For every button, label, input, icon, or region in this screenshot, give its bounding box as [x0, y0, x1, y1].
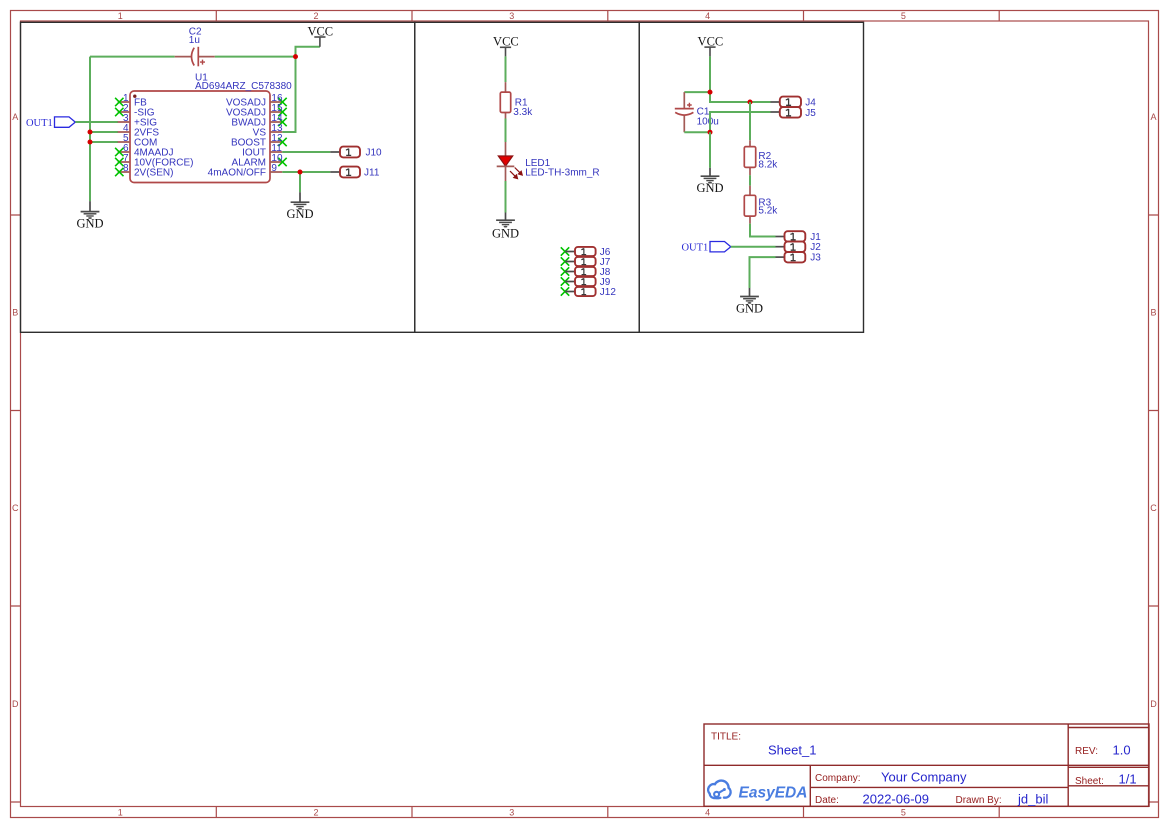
label C2 value [189, 26, 202, 46]
label U1 [195, 73, 292, 93]
svg-text:Your Company: Your Company [881, 769, 967, 784]
wire VCC symbol to junction [296, 47, 320, 57]
svg-text:J2: J2 [810, 242, 821, 253]
svg-text:4: 4 [705, 11, 710, 21]
svg-text:OUT1: OUT1 [681, 243, 708, 254]
label R3 value [758, 197, 778, 216]
wire VCC to R1 [505, 56, 507, 82]
section box 1 [21, 22, 415, 332]
svg-text:J11: J11 [364, 167, 380, 178]
ground GND box3 left [696, 168, 723, 195]
svg-text:AD694ARZ_C578380: AD694ARZ_C578380 [195, 81, 292, 92]
title block divider horizontal date row [810, 786, 1068, 788]
svg-text:8.2k: 8.2k [758, 159, 778, 170]
capacitor C1 [675, 92, 694, 132]
U1 no-connect marks left pins 1 2 6 7 8 [115, 98, 123, 176]
title block divider vertical logo cell [809, 765, 811, 806]
connector J7 [561, 257, 596, 266]
connector J6 [561, 247, 596, 256]
svg-text:D: D [12, 699, 19, 709]
svg-text:J10: J10 [366, 147, 383, 158]
svg-text:Drawn By:: Drawn By: [956, 795, 1002, 806]
wire VCC to J4 [710, 92, 771, 102]
wire 4mAON/OFF to J11 [282, 171, 330, 173]
connector J12 [561, 287, 596, 296]
ground GND box2 [492, 213, 519, 241]
section box 2 [415, 22, 639, 332]
svg-text:9: 9 [271, 163, 277, 174]
wire junction to VS pin13 [282, 57, 295, 132]
connector J2 [776, 242, 806, 252]
svg-text:Company:: Company: [815, 773, 861, 784]
EasyEDA logo cloud [708, 781, 730, 799]
wire J5 gnd line [710, 112, 771, 132]
connector J5 [771, 107, 802, 118]
node junction VCC [293, 54, 298, 59]
U1 no-connect marks right pins 16 15 14 12 10 [278, 98, 286, 166]
U1 left pin numbers [123, 93, 129, 174]
wire VCC down [709, 56, 711, 92]
connector J3 [776, 252, 806, 262]
svg-text:2022-06-09: 2022-06-09 [863, 791, 930, 806]
connector J1 [776, 231, 806, 241]
svg-text:1.0: 1.0 [1113, 742, 1131, 757]
node junction pin4 [88, 130, 93, 135]
svg-text:3: 3 [509, 808, 514, 818]
node junction J11 gnd [298, 170, 303, 175]
svg-text:3.3k: 3.3k [513, 107, 533, 118]
svg-text:1u: 1u [189, 35, 200, 46]
wire GND vertical left [89, 57, 91, 202]
svg-text:OUT1: OUT1 [26, 118, 53, 129]
ground GND left [76, 201, 103, 230]
svg-text:B: B [12, 308, 18, 318]
svg-text:8: 8 [123, 163, 129, 174]
wire J11 to ground [299, 172, 301, 192]
svg-text:J12: J12 [600, 287, 617, 298]
label LED1 value [525, 158, 599, 179]
svg-text:Date:: Date: [815, 795, 839, 806]
op-amp U1 AD694ARZ body [130, 91, 270, 183]
wire R2 to R3 [749, 175, 751, 185]
svg-text:Sheet_1: Sheet_1 [768, 743, 816, 758]
svg-text:C: C [12, 503, 19, 513]
frame column ticks bottom [216, 807, 999, 818]
frame column ticks top [216, 11, 999, 22]
label C1 value [697, 107, 719, 128]
node junction pin5 [88, 140, 93, 145]
U1 left pin names [134, 98, 193, 179]
svg-text:5: 5 [901, 808, 906, 818]
svg-text:A: A [1150, 112, 1156, 122]
connector J11 [330, 167, 360, 178]
power flag VCC [307, 24, 333, 46]
svg-text:B: B [1150, 308, 1156, 318]
ground GND box3 bottom [736, 288, 763, 315]
frame row ticks left [11, 215, 21, 802]
node junction C1 bottom [708, 130, 713, 135]
connector J9 [561, 277, 596, 286]
svg-text:5.2k: 5.2k [758, 206, 778, 217]
label R2 value [758, 151, 778, 170]
svg-text:4mAON/OFF: 4mAON/OFF [208, 168, 266, 179]
svg-text:J4: J4 [805, 97, 816, 108]
svg-text:GND: GND [736, 301, 763, 315]
svg-text:EasyEDA: EasyEDA [739, 785, 808, 802]
svg-text:D: D [1150, 699, 1157, 709]
wire to pin 5 [90, 141, 118, 143]
svg-text:2V(SEN): 2V(SEN) [134, 168, 173, 179]
wire IOUT to J10 [282, 151, 330, 153]
title block sheet cell top line [1068, 766, 1149, 768]
wire junction C1 bottom to ground [709, 132, 711, 168]
connector J10 [330, 147, 360, 158]
resistor R2 [744, 140, 755, 175]
LED LED1 [497, 142, 523, 181]
svg-text:1: 1 [118, 11, 123, 21]
svg-text:J1: J1 [810, 232, 821, 243]
U1 right pin numbers [271, 93, 283, 174]
wire VCC junction down to R2 [749, 102, 751, 140]
ground GND mid [286, 192, 313, 221]
column numbers bottom [118, 808, 906, 818]
title block outline [704, 724, 1149, 806]
wire C1 bottom to junction [684, 131, 710, 133]
svg-text:J3: J3 [810, 253, 821, 264]
node junction R2 top [748, 100, 753, 105]
svg-text:LED-TH-3mm_R: LED-TH-3mm_R [525, 167, 599, 178]
U1 left pin stubs [118, 102, 130, 172]
svg-text:1/1: 1/1 [1119, 771, 1137, 786]
svg-text:J5: J5 [805, 108, 816, 119]
wire R1 to LED1 [505, 119, 507, 143]
resistor R3 [744, 186, 755, 224]
wire J3 to ground [750, 257, 776, 288]
wire junction to C1 top [684, 91, 710, 93]
svg-text:GND: GND [76, 217, 103, 231]
power flag VCC box2 [493, 35, 519, 57]
resistor R1 [500, 82, 510, 118]
connector J4 [771, 97, 802, 108]
svg-text:jd_bil: jd_bil [1017, 791, 1048, 806]
connector J8 [561, 267, 596, 276]
svg-text:4: 4 [705, 808, 710, 818]
wire OUT1 to pin 3 [75, 121, 118, 123]
label R1 value [513, 98, 533, 119]
svg-text:REV:: REV: [1075, 746, 1098, 757]
svg-text:GND: GND [492, 227, 519, 241]
wire LED1 to ground [505, 181, 507, 213]
row letters right [1150, 112, 1157, 709]
svg-text:2: 2 [313, 808, 318, 818]
wire R3 to J1 [750, 224, 776, 237]
frame row ticks right [1149, 215, 1159, 802]
row letters left [12, 112, 19, 709]
svg-text:1: 1 [118, 808, 123, 818]
title block divider vertical rev column [1067, 724, 1069, 806]
column numbers top [118, 11, 906, 21]
svg-text:A: A [12, 112, 18, 122]
svg-text:GND: GND [696, 181, 723, 195]
wire OUT1 to J2 [731, 246, 776, 248]
net flag OUT1 [26, 117, 75, 129]
svg-text:TITLE:: TITLE: [711, 732, 741, 743]
svg-text:3: 3 [509, 11, 514, 21]
svg-text:C: C [1150, 503, 1157, 513]
title block sheet cell bottom line [1068, 785, 1149, 787]
title block divider horizontal main [704, 764, 1149, 766]
section box 3 [639, 22, 863, 332]
U1 right pin stubs [270, 102, 282, 172]
svg-text:GND: GND [286, 207, 313, 221]
capacitor C2 [175, 47, 215, 67]
node junction VCC top [708, 90, 713, 95]
svg-text:Sheet:: Sheet: [1075, 776, 1104, 787]
power flag VCC box3 [698, 34, 724, 56]
net flag OUT1 box3 [681, 242, 730, 254]
wire to pin 4 [90, 131, 118, 133]
title block rev cell top inset line [1068, 727, 1149, 729]
svg-text:2: 2 [313, 11, 318, 21]
U1 right pin names [208, 98, 267, 179]
svg-text:5: 5 [901, 11, 906, 21]
wire net VCC main horizontal [90, 56, 296, 58]
svg-text:100u: 100u [697, 116, 719, 127]
